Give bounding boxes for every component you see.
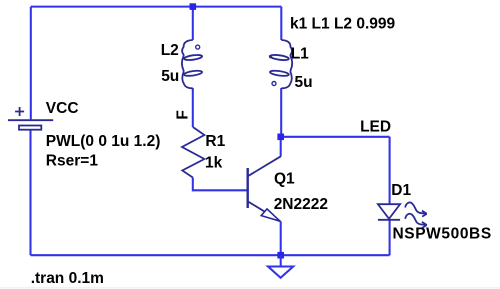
inductor L2 spine bbox=[182, 40, 193, 88]
svg-text:L1: L1 bbox=[291, 46, 309, 63]
svg-text:5u: 5u bbox=[295, 74, 313, 91]
inductor L1 loop 1 bbox=[270, 54, 289, 61]
wire L2 top lead bbox=[192, 7, 194, 40]
wire collector junction down bbox=[280, 137, 282, 157]
battery VCC bottom plate box bbox=[19, 126, 41, 130]
ground stem bbox=[280, 255, 282, 266]
ground bbox=[268, 267, 293, 278]
wire L1 bottom lead to collector junction bbox=[280, 88, 282, 137]
svg-text:Q1: Q1 bbox=[274, 171, 295, 188]
svg-text:k1 L1 L2 0.999: k1 L1 L2 0.999 bbox=[290, 16, 396, 33]
bottom edge faint line bbox=[0, 287, 500, 288]
inductor L2 phase dot bbox=[196, 45, 200, 49]
junction node collector bbox=[277, 134, 284, 141]
inductor L1 spine bbox=[281, 40, 292, 88]
svg-text:Rser=1: Rser=1 bbox=[46, 152, 99, 169]
battery plus sign bbox=[15, 107, 24, 116]
svg-text:PWL(0 0 1u 1.2): PWL(0 0 1u 1.2) bbox=[46, 133, 161, 150]
junction node top (L2 tap) bbox=[190, 3, 197, 10]
svg-text:F: F bbox=[174, 110, 191, 119]
wire collector junction to LED branch bbox=[281, 136, 390, 138]
wire battery bottom lead bbox=[29, 130, 31, 256]
diode D1 triangle bbox=[378, 204, 400, 219]
wire LED top lead bbox=[389, 137, 391, 204]
inductor L1 loop tip blob bbox=[269, 55, 272, 58]
inductor L1 phase dot bbox=[272, 82, 276, 86]
wire emitter down to bottom junction bbox=[280, 221, 282, 255]
junction node emitter/ground bbox=[277, 252, 284, 259]
LED light arrow 1 bbox=[405, 203, 426, 214]
svg-text:LED: LED bbox=[360, 118, 391, 135]
inductor L2 loop 2 bbox=[184, 70, 203, 77]
wire L2 to R1 bbox=[192, 88, 194, 127]
diode D1 cathode bar bbox=[378, 219, 400, 221]
inductor L2 loop 1 bbox=[184, 54, 203, 61]
transistor Q1 collector diagonal bbox=[249, 156, 281, 176]
svg-text:5u: 5u bbox=[161, 68, 179, 85]
svg-text:L2: L2 bbox=[161, 42, 179, 59]
svg-text:1k: 1k bbox=[205, 155, 223, 172]
wire bottom rail bbox=[31, 254, 390, 256]
wire R1 bottom to Q1 base bbox=[193, 178, 248, 191]
LED light arrow 2 bbox=[405, 214, 426, 225]
svg-text:NSPW500BS: NSPW500BS bbox=[393, 225, 492, 242]
battery VCC top plate bbox=[8, 119, 53, 121]
svg-text:D1: D1 bbox=[391, 182, 411, 199]
svg-text:R1: R1 bbox=[205, 133, 225, 150]
svg-text:VCC: VCC bbox=[46, 100, 79, 117]
transistor Q1 emitter arrow bbox=[261, 209, 280, 221]
wire top rail bbox=[31, 6, 281, 8]
transistor Q1 base bar bbox=[246, 168, 248, 208]
wire L1 top lead bbox=[280, 7, 282, 40]
svg-text:.tran 0.1m: .tran 0.1m bbox=[31, 270, 104, 287]
svg-text:2N2222: 2N2222 bbox=[274, 196, 328, 213]
wire LED bottom lead bbox=[389, 220, 391, 255]
inductor L1 loop 2 bbox=[270, 70, 289, 77]
transistor Q1 emitter diagonal bbox=[249, 202, 281, 222]
resistor R1 bbox=[182, 127, 204, 178]
wire left rail bbox=[30, 7, 32, 120]
